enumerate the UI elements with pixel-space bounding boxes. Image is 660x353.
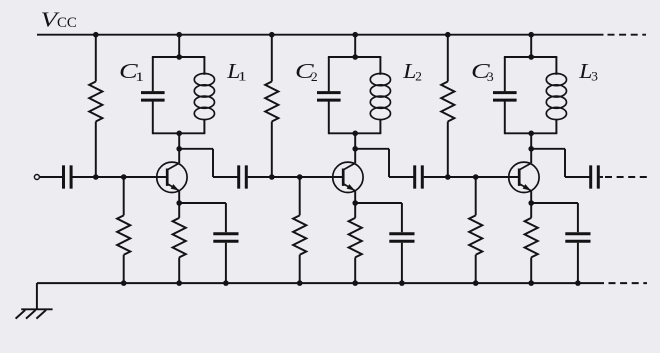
node ground junction Rb3 [473,280,479,286]
capacitor Cc2 (coupling, stage 2 output) [415,165,423,188]
node emitter junction 3 [528,200,534,206]
node ground junction CE3 [575,280,581,286]
label L1 [226,59,246,84]
wire input terminal to coupling cap [39,176,62,178]
wire Vcc rail dashed continuation [608,34,647,36]
inductor L2 [370,74,390,120]
wire tank1 left lower lead [152,101,154,133]
wire Vcc rail to tank 3 [530,35,532,57]
capacitor CE1 (emitter bypass) [213,234,238,242]
wire tank2 right upper lead [379,57,381,75]
transistor Q1 [157,149,187,203]
node emitter junction 2 [352,200,358,206]
node ground junction CE1 [223,280,229,286]
wire tank3 left upper lead [504,57,506,91]
wire output stub [600,176,603,178]
wire tank1 top bar [152,56,205,58]
label L2 [402,59,422,84]
wire tank3 left lower lead [504,101,506,133]
capacitor C1 [141,93,165,101]
resistor R7 (upper bias, stage 3) [441,35,454,177]
node tank3 top junction [528,54,534,60]
wire bypass cap 1 to ground rail [225,243,227,283]
node Vcc-bias junction 1 [93,32,99,38]
capacitor C2 [317,93,341,101]
node emitter junction 1 [176,200,182,206]
capacitor CE2 (emitter bypass) [389,234,414,242]
svg-text:1: 1 [238,69,247,83]
resistor R2 (lower bias, stage 1) [117,177,130,283]
wire tank1 right lower lead [203,119,205,133]
node Vcc-bias junction 2 [269,32,275,38]
wire tank2 bottom bar [328,132,381,134]
wire collector output tap 1 [179,149,239,177]
node collector tap 2 [352,146,358,152]
wire collector output tap 3 [531,149,591,177]
svg-text:3: 3 [591,69,598,84]
svg-text:CC: CC [57,15,77,31]
node ground junction Rb2 [297,280,303,286]
wire tank3 top bar [504,56,557,58]
wire bypass cap 2 to ground rail [401,243,403,283]
svg-text:2: 2 [415,69,422,84]
inductor L1 [194,74,214,120]
wire tank3 to collector of Q3 [530,133,532,149]
label C2 [295,60,318,84]
node base junction upper-bias 2 [269,174,275,180]
node tank1 bottom junction [176,131,182,137]
capacitor CE3 (emitter bypass) [565,234,590,242]
resistor R9 (emitter, stage 3) [525,203,538,283]
wire collector output tap 2 [355,149,415,177]
node base junction upper-bias 3 [445,174,451,180]
node base junction lower-bias 2 [297,174,303,180]
wire tank1 left upper lead [152,57,154,91]
wire tank1 to collector of Q1 [178,133,180,149]
label L3 [578,59,598,84]
svg-text:1: 1 [135,70,144,84]
wire output dashed continuation [605,176,647,178]
node tank1 top junction [176,54,182,60]
wire tank1 bottom bar [152,132,205,134]
node collector tap 3 [528,146,534,152]
inductor L3 [546,74,566,120]
label C1 [119,60,144,84]
node ground junction CE2 [399,280,405,286]
node Vcc-bias junction 3 [445,32,451,38]
wire base line stage 2 [272,176,342,178]
wire tank3 right lower lead [555,119,557,133]
resistor R8 (lower bias, stage 3) [469,177,482,283]
node collector tap 1 [176,146,182,152]
wire Vcc rail [37,34,604,36]
node ground junction Re1 [176,280,182,286]
wire Vcc rail to tank 1 [178,35,180,57]
svg-text:2: 2 [311,69,318,84]
node base junction lower-bias 3 [473,174,479,180]
capacitor Cc1 (coupling, stage 1 output) [239,165,247,188]
resistor R1 (upper bias, stage 1) [89,35,102,177]
wire emitter 3 to bypass cap [531,203,578,232]
wire tank2 right lower lead [379,119,381,133]
wire tank3 bottom bar [504,132,557,134]
wire coupling cap 2 to stage 3 base node [424,176,448,178]
wire base line stage 1 [96,176,166,178]
wire tank2 top bar [328,56,381,58]
node base junction lower-bias 1 [121,174,127,180]
resistor R5 (lower bias, stage 2) [293,177,306,283]
wire ground rail dashed continuation [609,282,648,284]
label C3 [471,60,494,84]
wire Cin to base node 1 [72,176,95,178]
transistor Q2 [333,149,363,203]
wire coupling cap 1 to stage 2 base node [248,176,272,178]
wire Vcc rail to tank 2 [354,35,356,57]
wire emitter 1 to bypass cap [179,203,226,232]
node tank2 top junction [352,54,358,60]
capacitor C3 [493,93,517,101]
node Vcc-tank junction 2 [352,32,358,38]
wire ground-rail drop to ground symbol [36,283,38,309]
wire base line stage 3 [448,176,518,178]
wire tank2 left upper lead [328,57,330,91]
resistor R4 (upper bias, stage 2) [265,35,278,177]
node base junction upper-bias 1 [93,174,99,180]
node Vcc-tank junction 1 [176,32,182,38]
node tank2 bottom junction [352,131,358,137]
node ground junction Rb1 [121,280,127,286]
wire tank2 to collector of Q2 [354,133,356,149]
wire ground rail [37,282,604,284]
input terminal [34,175,39,180]
wire bypass cap 3 to ground rail [577,243,579,283]
capacitor Cc3 (coupling, stage 3 output) [591,165,599,188]
capacitor Cin (input coupling) [64,165,72,188]
wire emitter 2 to bypass cap [355,203,402,232]
node Vcc-tank junction 3 [528,32,534,38]
resistor R6 (emitter, stage 2) [349,203,362,283]
node tank3 bottom junction [528,131,534,137]
svg-text:3: 3 [487,69,494,84]
transistor Q3 [509,149,539,203]
resistor R3 (emitter, stage 1) [173,203,186,283]
ground [16,309,53,318]
wire tank3 right upper lead [555,57,557,75]
node ground junction Re3 [528,280,534,286]
wire tank1 right upper lead [203,57,205,75]
label Vcc [41,8,77,32]
wire tank2 left lower lead [328,101,330,133]
node ground junction Re2 [352,280,358,286]
